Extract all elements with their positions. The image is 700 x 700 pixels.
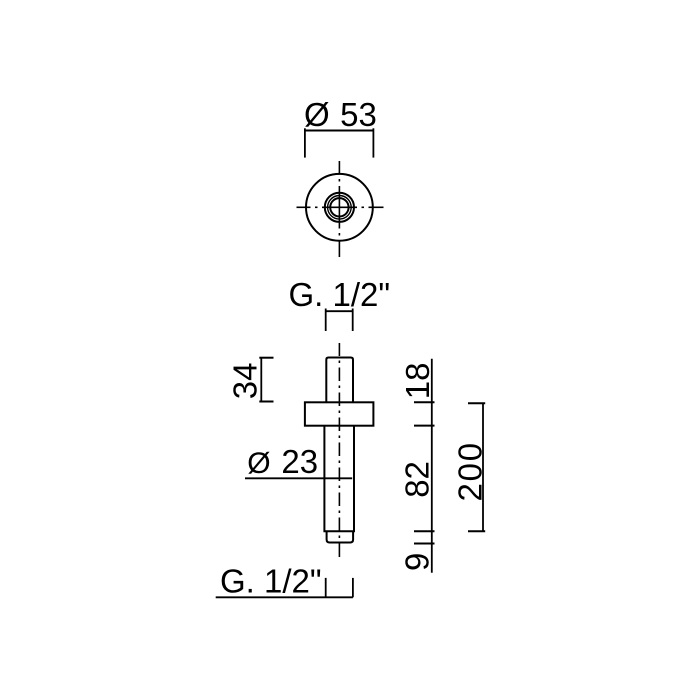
G1/2 bracket left extension — [325, 309, 327, 332]
svg-text:9: 9 — [398, 553, 435, 571]
tick flange top — [414, 401, 435, 403]
svg-text:Ø23: Ø23 — [247, 443, 318, 480]
tick bottom of 200 — [468, 530, 485, 532]
svg-text:34: 34 — [227, 362, 264, 399]
tick tip bottom — [414, 543, 435, 545]
top view vertical centerline — [338, 161, 340, 257]
top view: thread inner ring — [330, 198, 348, 216]
extension line left of Ø53 — [304, 128, 306, 157]
front view: main tube — [324, 426, 354, 532]
top view horizontal centerline — [297, 206, 384, 208]
tick tube bottom — [414, 530, 435, 532]
svg-text:200: 200 — [452, 441, 489, 501]
front view: bottom threaded tip — [327, 531, 354, 542]
svg-text:Ø 53: Ø 53 — [304, 96, 377, 133]
front view vertical centerline — [338, 343, 340, 557]
extension tick right of bottom thread — [352, 578, 354, 597]
leader underline bottom G1/2 — [216, 596, 353, 598]
dimension line Ø53 — [305, 130, 374, 132]
G1/2 bracket right extension — [352, 309, 354, 332]
extension tick left of bottom thread — [325, 578, 327, 597]
svg-text:82: 82 — [398, 461, 435, 498]
tick top of 200 — [468, 402, 485, 404]
dimension line 34 — [260, 358, 262, 402]
svg-text:18: 18 — [399, 362, 436, 399]
top view: flange outer circle — [306, 174, 373, 241]
leader line Ø23 — [245, 477, 352, 479]
right dimension line (18/82/9) — [431, 359, 433, 573]
svg-text:G. 1/2": G. 1/2" — [289, 276, 391, 313]
tick flange bottom — [414, 425, 435, 427]
extension line right of Ø53 — [372, 128, 374, 157]
tick top of 34 — [259, 357, 273, 359]
tick bottom of 34 — [259, 401, 273, 403]
top view: thread outer ring — [325, 193, 354, 222]
front view: top threaded pipe — [326, 358, 353, 403]
front view: ceiling flange — [305, 402, 374, 425]
top view: thread middle ring — [328, 196, 352, 220]
G1/2 bracket dimension line — [326, 310, 353, 312]
dimension line 200 — [482, 403, 484, 531]
svg-text:G. 1/2": G. 1/2" — [220, 563, 322, 600]
